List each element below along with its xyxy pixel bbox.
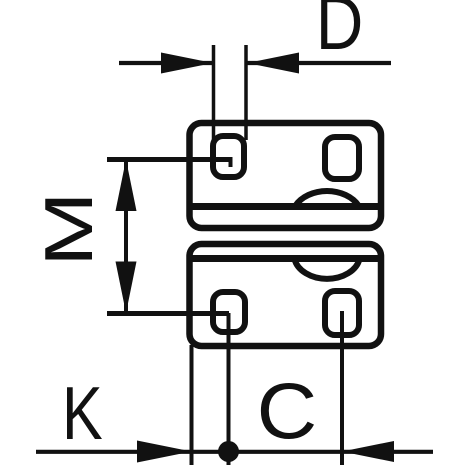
bottom plate dome tab [295,259,360,279]
arrowhead D left [161,53,213,74]
svg-text:K: K [62,371,103,456]
top plate dome tab [295,191,359,206]
hole top-left [213,136,244,177]
arrowhead D right [247,53,299,74]
svg-text:D: D [316,0,364,66]
dimension line M [124,159,128,313]
extension line D-right [244,45,248,140]
extension line M top [107,157,231,162]
svg-text:C: C [257,367,318,455]
hole bottom-right [325,291,359,335]
dot at C left end [218,441,239,462]
top plate fold line [190,203,380,210]
bottom plate body [190,244,382,346]
hole top-right [325,137,359,179]
dimension line D left segment [119,61,213,65]
svg-text:M: M [31,191,106,267]
hole bottom-left [213,292,245,332]
tick at M top extension end [229,157,233,167]
extension line K (plate left edge) [190,345,194,465]
top plate body [190,123,382,228]
bottom plate fold line [190,255,380,262]
extension line D-left [212,45,216,158]
arrowhead C left-pointing [342,441,394,462]
extension line M bottom [107,311,229,316]
bottom dimension line [36,450,433,454]
arrowhead M down [116,262,137,314]
extension line C left (from bottom-left hole centre) [227,313,231,465]
arrowhead K right [137,441,192,463]
dimension line D right segment [246,61,391,65]
extension line C right (from bottom-right hole centre) [340,311,344,465]
arrowhead M up [116,160,137,212]
